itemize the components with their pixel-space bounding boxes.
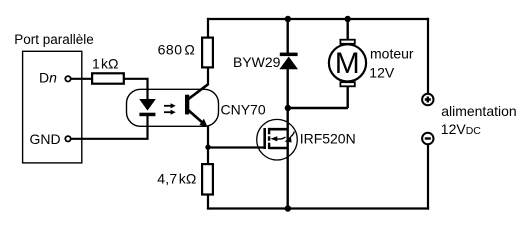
op-amp optocoupler CNY70 outline — [127, 89, 219, 126]
wire drain node to motor bottom — [288, 107, 348, 109]
wire collector to 680 — [207, 68, 209, 85]
diode LED of CNY70 — [139, 99, 156, 111]
svg-text:680 Ω: 680 Ω — [158, 41, 196, 57]
svg-text:alimentation: alimentation — [441, 103, 517, 119]
wire gate wire — [208, 146, 264, 148]
svg-text:Port parallèle: Port parallèle — [14, 32, 94, 47]
gate bar — [263, 128, 266, 149]
svg-text:GND: GND — [30, 131, 61, 147]
node junction drain node — [285, 105, 291, 111]
pin plus terminal — [422, 94, 433, 105]
node junction top rail / motor — [345, 16, 351, 22]
svg-text:4,7 kΩ: 4,7 kΩ — [157, 171, 196, 187]
wire light arrow 1 — [164, 105, 173, 107]
motor M1 — [329, 44, 366, 81]
channel segments — [268, 128, 270, 134]
wire emitter down to node — [207, 127, 209, 165]
wire bottom-left stub from 4.7k resistor — [207, 196, 209, 210]
wire motor bottom stub — [347, 87, 349, 109]
wire light arrow 2 — [164, 111, 173, 113]
wire motor top stub — [347, 18, 349, 40]
wire middle column through MOSFET — [287, 69, 289, 210]
resistor 4.7k — [202, 164, 213, 194]
diode BYW29 — [279, 57, 298, 70]
wire 1k to LED anode — [124, 79, 148, 100]
resistor 680 — [202, 38, 213, 68]
transistor MOSFET IRF520N — [257, 119, 298, 160]
resistor 1k — [92, 73, 124, 83]
wire bottom-right stub from minus terminal — [427, 145, 429, 210]
drain connection — [269, 128, 288, 131]
substrate arrow — [277, 138, 281, 140]
node Port parallèle box — [23, 51, 82, 163]
node junction top rail / diode — [285, 16, 291, 22]
svg-text:12V: 12V — [369, 65, 395, 81]
wire top-left stub to 680 resistor — [207, 18, 209, 37]
wire Dn to resistor R1 — [71, 78, 92, 80]
source connection — [269, 147, 288, 150]
node junction bottom rail / source — [285, 205, 291, 211]
pin minus terminal — [422, 133, 433, 144]
svg-text:CNY70: CNY70 — [221, 102, 266, 118]
pin Dn terminal — [65, 76, 70, 81]
svg-text:M: M — [335, 47, 360, 80]
svg-text:BYW29: BYW29 — [233, 54, 281, 70]
wire top rail — [207, 18, 429, 20]
node gate junction — [205, 145, 210, 150]
wire GND to LED cathode — [71, 114, 148, 139]
svg-text:1 kΩ: 1 kΩ — [92, 56, 118, 72]
svg-text:Dn: Dn — [39, 70, 57, 86]
substrate arrow 2 with curve — [281, 137, 286, 139]
svg-text:IRF520N: IRF520N — [300, 131, 356, 147]
svg-text:moteur: moteur — [370, 46, 414, 62]
wire diode top stub — [287, 18, 289, 54]
transistor phototransistor of CNY70 — [185, 95, 189, 115]
wire bottom rail — [207, 207, 429, 209]
wire top-right stub to plus terminal — [427, 18, 429, 93]
pin GND terminal — [65, 136, 70, 141]
